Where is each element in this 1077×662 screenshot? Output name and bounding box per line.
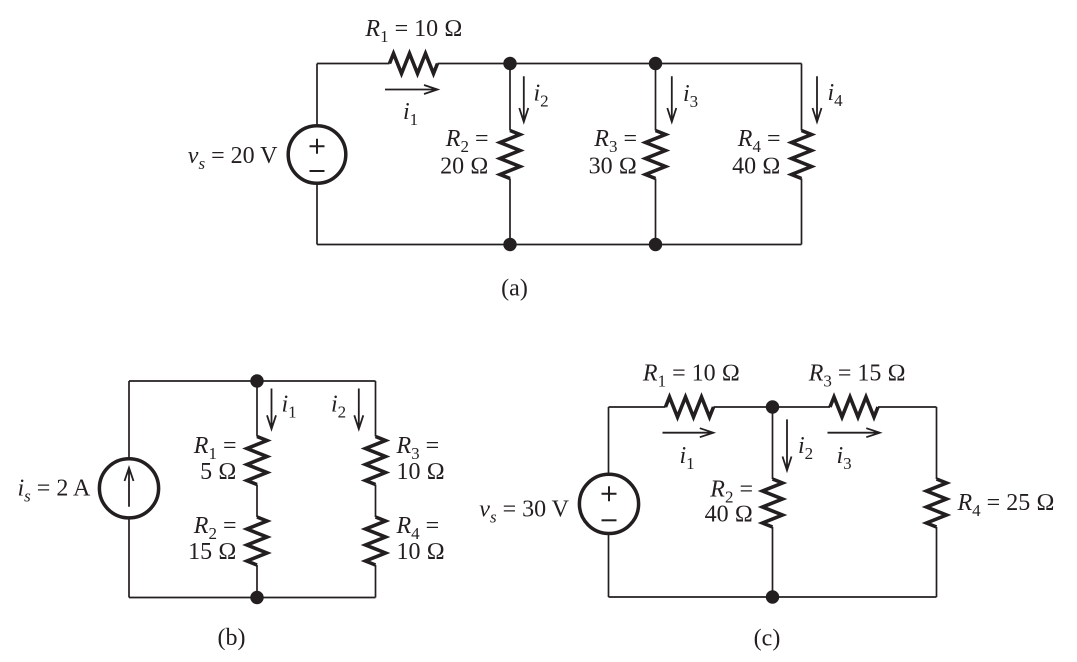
resistor R4 (b) zigzag [366, 517, 386, 565]
wire a left branch lower [316, 183, 318, 244]
svg-text:i3: i3 [837, 443, 852, 473]
wire b middle branch bottom [256, 565, 258, 598]
svg-text:i1: i1 [680, 443, 695, 473]
plus sign inside source (c) [602, 486, 617, 501]
wire a bottom [317, 244, 802, 246]
wire a top-left segment [317, 63, 390, 65]
wire a R3 branch upper [655, 64, 657, 131]
current arrow i1 (a) [385, 85, 438, 94]
node dot c bottom [766, 590, 779, 603]
svg-text:i3: i3 [683, 81, 698, 111]
node dot a top R2 [503, 57, 516, 70]
resistor R2 (b) zigzag [247, 517, 267, 565]
node dot b top [250, 374, 263, 387]
svg-text:i2: i2 [798, 433, 813, 463]
resistor R3 (a) zigzag [646, 131, 666, 179]
resistor R1 (a) zigzag [390, 54, 438, 74]
plus sign inside source (a) [310, 139, 325, 154]
node dot c top [766, 400, 779, 413]
wire a R4 branch upper [801, 64, 803, 131]
resistor R4 (a) zigzag [792, 131, 812, 179]
svg-text:R3 = 15 Ω: R3 = 15 Ω [808, 361, 906, 391]
svg-text:R3 =: R3 = [593, 126, 637, 156]
svg-text:(c): (c) [754, 626, 781, 652]
svg-text:i2: i2 [534, 81, 549, 111]
wire c middle branch upper [772, 407, 774, 479]
svg-text:R4 = 25 Ω: R4 = 25 Ω [957, 490, 1055, 520]
node dot b bottom [250, 591, 263, 604]
svg-text:vs = 20 V: vs = 20 V [188, 143, 278, 173]
svg-text:30 Ω: 30 Ω [589, 154, 637, 180]
wire a left branch upper [316, 64, 318, 126]
wire b middle branch top [256, 381, 258, 437]
minus sign inside source (c) [602, 519, 617, 521]
wire c middle branch lower [772, 527, 774, 597]
svg-text:R1 = 10 Ω: R1 = 10 Ω [642, 361, 740, 391]
current arrow i4 (a) [813, 76, 822, 122]
voltage source vs circle (c) [579, 474, 638, 533]
node dot a top R3 [649, 57, 662, 70]
wire c left branch upper [608, 407, 610, 474]
wire b left branch lower [128, 518, 130, 598]
svg-text:20 Ω: 20 Ω [440, 154, 488, 180]
current arrow i3 (a) [667, 76, 676, 122]
wire a R4 branch lower [801, 179, 803, 245]
wire b top [129, 380, 376, 382]
svg-text:i1: i1 [282, 392, 297, 422]
resistor R2 (a) zigzag [500, 131, 520, 179]
svg-text:10 Ω: 10 Ω [397, 539, 445, 565]
voltage source Vs circle (a) [288, 126, 346, 184]
svg-text:40 Ω: 40 Ω [732, 154, 780, 180]
node dot a bottom R2 [503, 238, 516, 251]
wire b middle branch mid [256, 485, 258, 518]
wire a R2 branch upper [509, 64, 511, 131]
svg-text:R4 =: R4 = [737, 126, 781, 156]
node dot a bottom R3 [649, 238, 662, 251]
wire a R2 branch lower [509, 179, 511, 245]
current source is circle (b) [99, 459, 158, 518]
resistor R3 (b) zigzag [366, 437, 386, 485]
wire c top right [878, 406, 937, 408]
svg-text:i4: i4 [828, 80, 844, 110]
svg-text:vs = 30 V: vs = 30 V [479, 497, 569, 527]
svg-text:is = 2 A: is = 2 A [18, 476, 92, 506]
wire a R3 branch lower [655, 179, 657, 245]
resistor R4 (c) zigzag [927, 479, 947, 527]
svg-text:5 Ω: 5 Ω [200, 459, 236, 485]
resistor R1 (c) zigzag [666, 397, 714, 417]
wire c right branch upper [936, 407, 938, 479]
resistor R2 (c) zigzag [763, 479, 783, 527]
svg-text:R2 =: R2 = [445, 126, 489, 156]
current arrow i1 (c) [663, 428, 714, 437]
current arrow i2 (c) [783, 419, 792, 470]
wire c bottom [609, 596, 937, 598]
resistor R3 (c) zigzag [830, 397, 878, 417]
wire c top left [609, 406, 666, 408]
svg-text:i1: i1 [403, 99, 418, 129]
current arrow i1 (b) [267, 389, 276, 430]
wire c right branch lower [936, 527, 938, 597]
wire c left branch lower [608, 534, 610, 598]
wire b left branch upper [128, 381, 130, 459]
svg-text:(b): (b) [218, 625, 246, 651]
current arrow i3 (c) [828, 428, 880, 437]
minus sign inside source (a) [310, 170, 325, 172]
wire b right branch bottom [375, 565, 377, 598]
current arrow i2 (a) [519, 76, 528, 122]
wire a top from R1 to right corner [438, 63, 802, 65]
svg-text:15 Ω: 15 Ω [188, 539, 236, 565]
wire b bottom [129, 597, 376, 599]
wire b right branch top [375, 381, 377, 437]
current arrow i2 (b) [354, 389, 363, 430]
svg-text:10 Ω: 10 Ω [397, 459, 445, 485]
svg-text:i2: i2 [331, 392, 346, 422]
wire b right branch mid [375, 485, 377, 518]
arrow inside current source (b) [125, 468, 134, 507]
svg-text:(a): (a) [501, 276, 528, 302]
resistor R1 (b) zigzag [247, 437, 267, 485]
svg-text:40 Ω: 40 Ω [705, 502, 753, 528]
wire c top between R1 and R3 [714, 406, 831, 408]
svg-text:R1 = 10 Ω: R1 = 10 Ω [364, 16, 462, 46]
